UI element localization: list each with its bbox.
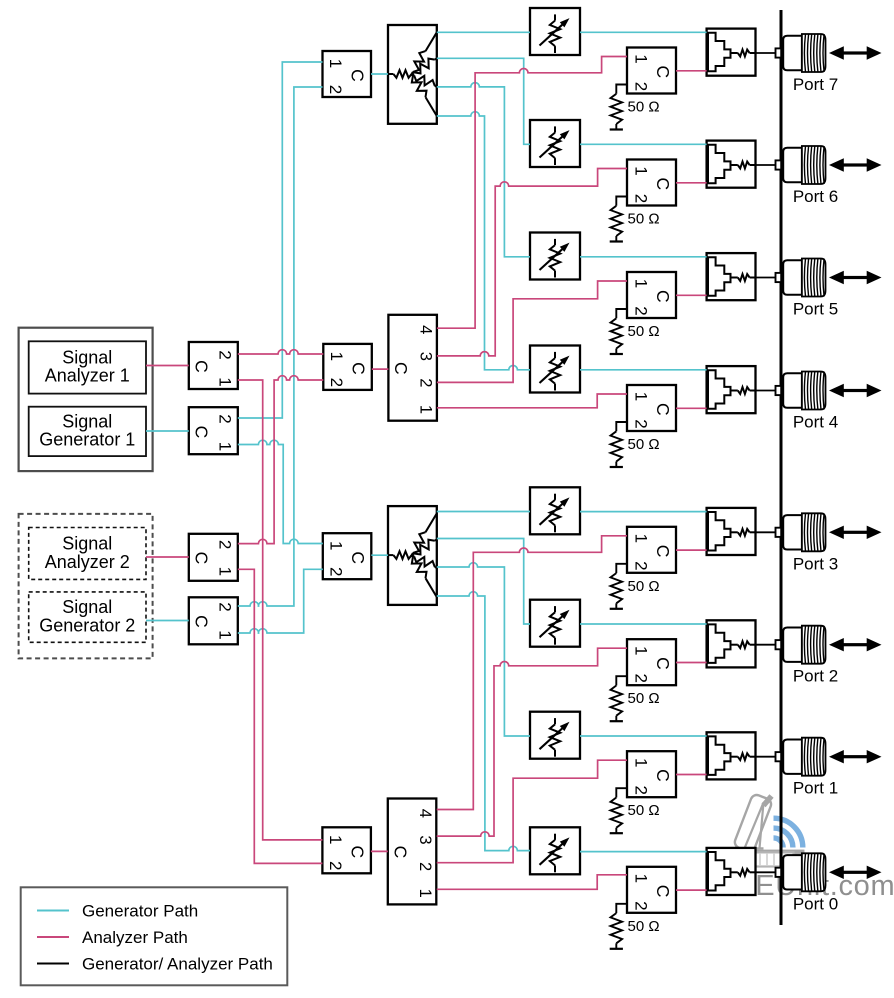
panel feedthrough 7 — [776, 48, 782, 57]
svg-text:Port 5: Port 5 — [793, 300, 838, 319]
svg-text:C: C — [653, 657, 673, 670]
svg-text:1: 1 — [326, 59, 345, 68]
panel feedthrough 4 — [776, 386, 782, 395]
svg-text:1: 1 — [215, 630, 234, 639]
wire attenuator to coupler 4 — [580, 369, 707, 371]
wire coupler 6 to panel — [756, 164, 777, 166]
wire attenuator to coupler 0 — [580, 851, 707, 853]
wire U1.3 to SW6 — [437, 169, 627, 356]
svg-text:2: 2 — [215, 414, 234, 423]
wire T2.C to U1 — [372, 368, 389, 370]
svg-text:1: 1 — [327, 352, 346, 361]
svg-text:Port 3: Port 3 — [793, 554, 838, 573]
wire coupler 0 to panel — [756, 871, 777, 873]
wire switch C to coupler 6 — [676, 182, 707, 184]
switch SW-G2 — [189, 597, 238, 644]
wire SG1 to SW-G1 — [146, 430, 189, 432]
wire switch C to coupler 1 — [676, 774, 707, 776]
label Port 0 — [793, 894, 838, 913]
svg-text:Analyzer 1: Analyzer 1 — [45, 366, 130, 386]
svg-text:1: 1 — [632, 534, 651, 543]
svg-text:Signal: Signal — [62, 534, 112, 554]
svg-text:1: 1 — [416, 889, 434, 898]
wire U2.2 to SW1 — [437, 760, 627, 863]
wire SW-G1.1 to T3.1 — [238, 440, 323, 543]
wire T4.C to U2 — [371, 850, 388, 852]
svg-text:1: 1 — [632, 874, 651, 883]
wire S2.4 to AT0 — [437, 592, 530, 851]
svg-text:Analyzer 2: Analyzer 2 — [45, 552, 130, 572]
svg-text:3: 3 — [416, 352, 434, 361]
label 50ohm R3 — [628, 578, 660, 595]
wire S1.2 to AT6 — [437, 58, 530, 144]
svg-text:50 Ω: 50 Ω — [628, 99, 660, 116]
svg-text:C: C — [653, 403, 673, 416]
label Port 4 — [793, 413, 838, 432]
label Port 1 — [793, 779, 838, 798]
svg-text:50 Ω: 50 Ω — [628, 918, 660, 935]
legend generator analyzer path — [37, 955, 273, 974]
switch SW4 — [627, 385, 676, 431]
signal analyzer 2 — [29, 528, 146, 580]
svg-text:C: C — [191, 426, 211, 439]
svg-text:3: 3 — [416, 835, 434, 844]
svg-text:Port 1: Port 1 — [793, 779, 838, 798]
legend generator path — [37, 902, 198, 921]
svg-text:2: 2 — [327, 378, 346, 387]
svg-text:C: C — [653, 65, 673, 78]
bidirectional arrow Port 7 — [829, 46, 882, 59]
svg-text:50 Ω: 50 Ω — [628, 578, 660, 595]
switch SW-A1 — [189, 342, 238, 389]
svg-text:1: 1 — [632, 646, 651, 655]
wire switch C to coupler 2 — [676, 662, 707, 664]
50 ohm termination R0 — [610, 904, 627, 949]
label Port 6 — [793, 187, 838, 206]
port connector Port 3 — [783, 513, 825, 551]
splitter S1 — [388, 25, 437, 124]
wire SW-A2.1 to T4.2 — [238, 569, 323, 863]
bidirectional arrow Port 3 — [829, 526, 882, 539]
switch T3 — [323, 533, 372, 579]
svg-text:Port 6: Port 6 — [793, 187, 838, 206]
panel feedthrough 2 — [776, 640, 782, 649]
svg-text:Generator 2: Generator 2 — [39, 615, 135, 635]
wire SW-A1.1 to T4.1 — [238, 380, 323, 840]
wire SW-A2.2 to T2.2 — [238, 376, 323, 544]
wire S1.4 to AT4 — [437, 112, 530, 370]
wire U1.1 to SW4 — [437, 394, 627, 408]
switch SW-A2 — [189, 534, 238, 581]
label 50ohm R7 — [628, 99, 660, 116]
variable attenuator AT0 — [530, 827, 580, 874]
svg-text:Signal: Signal — [62, 411, 112, 431]
wire SW-G1.2 to T1.1 — [238, 62, 323, 418]
50 ohm termination R3 — [610, 564, 627, 609]
label 50ohm R0 — [628, 918, 660, 935]
svg-text:Analyzer Path: Analyzer Path — [82, 928, 188, 947]
svg-text:C: C — [390, 846, 410, 859]
svg-text:1: 1 — [326, 835, 345, 844]
svg-text:C: C — [348, 551, 368, 564]
wire attenuator to coupler 7 — [580, 31, 707, 33]
label 50ohm R4 — [628, 436, 660, 453]
wire switch C to coupler 5 — [676, 294, 707, 296]
svg-text:C: C — [191, 360, 211, 373]
svg-text:Signal: Signal — [62, 347, 112, 367]
svg-text:50 Ω: 50 Ω — [628, 436, 660, 453]
svg-text:C: C — [391, 362, 411, 375]
label Port 5 — [793, 300, 838, 319]
switch SW1 — [627, 751, 676, 797]
svg-text:2: 2 — [632, 785, 651, 794]
SP4T switch U2 — [388, 799, 437, 905]
wire SW-G2.2 to T1.2 — [238, 87, 323, 606]
svg-text:1: 1 — [632, 758, 651, 767]
splitter S2 — [388, 506, 437, 605]
svg-text:2: 2 — [632, 901, 651, 910]
legend frame — [21, 887, 288, 985]
svg-text:C: C — [348, 362, 368, 375]
50 ohm termination R7 — [610, 85, 627, 130]
legend analyzer path — [37, 928, 188, 947]
panel feedthrough 1 — [776, 752, 782, 761]
bidirectional arrow Port 2 — [829, 638, 882, 651]
label Port 2 — [793, 667, 838, 686]
bidirectional arrow Port 1 — [829, 750, 882, 763]
wire coupler 5 to panel — [756, 277, 777, 279]
svg-text:1: 1 — [632, 54, 651, 63]
signal analyzer 1 — [29, 341, 146, 393]
svg-text:1: 1 — [215, 567, 234, 576]
svg-text:2: 2 — [215, 602, 234, 611]
svg-text:Generator Path: Generator Path — [82, 902, 198, 921]
svg-text:2: 2 — [326, 85, 345, 94]
switch SW6 — [627, 160, 676, 206]
panel feedthrough 6 — [776, 160, 782, 169]
label Port 7 — [793, 75, 838, 94]
label Port 3 — [793, 554, 838, 573]
port connector Port 2 — [783, 626, 825, 664]
bidirectional arrow Port 4 — [829, 384, 882, 397]
wire U1.2 to SW5 — [437, 281, 627, 382]
wire coupler 3 to panel — [756, 531, 777, 533]
svg-text:2: 2 — [326, 861, 345, 870]
svg-text:Port 4: Port 4 — [793, 413, 838, 432]
wire T3.C to S2 — [371, 554, 388, 556]
SP4T switch U1 — [388, 315, 437, 421]
port connector Port 6 — [783, 146, 825, 184]
svg-text:2: 2 — [416, 862, 434, 871]
svg-text:C: C — [191, 552, 211, 565]
50 ohm termination R5 — [610, 309, 627, 354]
signal generator 2 — [29, 592, 146, 642]
coupler CP7 — [707, 29, 756, 76]
wire attenuator to coupler 1 — [580, 735, 707, 737]
port connector Port 0 — [783, 853, 825, 891]
port connector Port 7 — [783, 34, 825, 72]
svg-text:2: 2 — [215, 540, 234, 549]
svg-text:Port 7: Port 7 — [793, 75, 838, 94]
svg-text:Port 2: Port 2 — [793, 667, 838, 686]
svg-text:4: 4 — [416, 325, 434, 334]
wire attenuator to coupler 2 — [580, 623, 707, 625]
signal generator 1 — [29, 407, 146, 456]
svg-text:50 Ω: 50 Ω — [628, 690, 660, 707]
panel feedthrough 5 — [776, 273, 782, 282]
wire switch C to coupler 4 — [676, 407, 707, 409]
wire SA1 to SW-A1 — [146, 365, 189, 367]
svg-text:4: 4 — [416, 809, 434, 818]
wire coupler 4 to panel — [756, 390, 777, 392]
svg-text:C: C — [653, 177, 673, 190]
switch SW3 — [627, 527, 676, 573]
wire SW-G2.1 to T3.2 — [238, 569, 323, 633]
svg-text:2: 2 — [632, 561, 651, 570]
50 ohm termination R6 — [610, 197, 627, 242]
switch SW-G1 — [189, 407, 238, 454]
svg-text:50 Ω: 50 Ω — [628, 211, 660, 228]
svg-text:2: 2 — [632, 306, 651, 315]
wire U2.3 to SW2 — [437, 648, 627, 836]
50 ohm termination R4 — [610, 422, 627, 467]
wire attenuator to coupler 6 — [580, 143, 707, 145]
variable attenuator AT5 — [530, 233, 580, 280]
svg-text:2: 2 — [632, 673, 651, 682]
port connector Port 4 — [783, 372, 825, 410]
svg-text:C: C — [653, 545, 673, 558]
wire coupler 7 to panel — [756, 52, 777, 54]
switch SW0 — [627, 867, 676, 913]
wire SG2 to SW-G2 — [146, 620, 189, 622]
variable attenuator AT2 — [530, 600, 580, 647]
switch SW5 — [627, 272, 676, 318]
switch T2 — [323, 344, 372, 390]
coupler CP5 — [707, 253, 756, 300]
wire coupler 2 to panel — [756, 644, 777, 646]
coupler CP6 — [707, 141, 756, 188]
bidirectional arrow Port 6 — [829, 158, 882, 171]
coupler CP0 — [707, 848, 756, 895]
svg-text:2: 2 — [632, 194, 651, 203]
label 50ohm R5 — [628, 323, 660, 340]
svg-text:1: 1 — [215, 442, 234, 451]
svg-text:1: 1 — [326, 541, 345, 550]
wire attenuator to coupler 5 — [580, 256, 707, 258]
variable attenuator AT4 — [530, 346, 580, 393]
panel bulkhead line — [780, 10, 783, 925]
label 50ohm R2 — [628, 690, 660, 707]
svg-text:C: C — [348, 69, 368, 82]
svg-text:50 Ω: 50 Ω — [628, 802, 660, 819]
coupler CP1 — [707, 732, 756, 779]
wire U2.1 to SW0 — [437, 875, 627, 890]
label 50ohm R1 — [628, 802, 660, 819]
watermark ATEUnit.com — [719, 793, 894, 902]
label 50ohm R6 — [628, 211, 660, 228]
port connector Port 1 — [783, 738, 825, 776]
wire switch C to coupler 0 — [676, 889, 707, 891]
wire attenuator to coupler 3 — [580, 511, 707, 513]
wire S1.1 to AT7 — [437, 31, 530, 33]
svg-text:Signal: Signal — [62, 597, 112, 617]
signal source group 1 frame — [19, 328, 153, 471]
50 ohm termination R2 — [610, 676, 627, 721]
svg-text:50 Ω: 50 Ω — [628, 323, 660, 340]
variable attenuator AT6 — [530, 120, 580, 167]
variable attenuator AT1 — [530, 712, 580, 759]
bidirectional arrow Port 0 — [829, 866, 882, 879]
wire SW-A1.2 to T2.1 — [238, 350, 323, 354]
svg-text:C: C — [653, 290, 673, 303]
svg-text:Generator 1: Generator 1 — [39, 430, 135, 450]
panel feedthrough 3 — [776, 528, 782, 537]
svg-text:Port 0: Port 0 — [793, 894, 838, 913]
svg-text:1: 1 — [416, 405, 434, 414]
port connector Port 5 — [783, 259, 825, 297]
svg-text:Generator/ Analyzer Path: Generator/ Analyzer Path — [82, 955, 273, 974]
bidirectional arrow Port 5 — [829, 271, 882, 284]
wire S2.3 to AT1 — [437, 563, 530, 736]
svg-text:1: 1 — [215, 377, 234, 386]
wire SA2 to SW-A2 — [146, 556, 189, 558]
svg-text:C: C — [653, 885, 673, 898]
svg-text:2: 2 — [326, 567, 345, 576]
wire T1.C to S1 — [371, 73, 388, 75]
coupler CP4 — [707, 366, 756, 413]
50 ohm termination R1 — [610, 788, 627, 833]
svg-text:1: 1 — [632, 279, 651, 288]
variable attenuator AT3 — [530, 487, 580, 534]
switch T1 — [323, 51, 372, 97]
wire S2.1 to AT3 — [437, 511, 530, 513]
wire U1.4 to SW7 — [437, 57, 627, 329]
wire coupler 1 to panel — [756, 756, 777, 758]
wire U2.4 to SW3 — [437, 536, 627, 810]
svg-text:C: C — [347, 845, 367, 858]
svg-text:C: C — [653, 769, 673, 782]
svg-text:1: 1 — [632, 392, 651, 401]
switch T4 — [322, 827, 371, 873]
svg-text:2: 2 — [632, 419, 651, 428]
switch SW2 — [627, 639, 676, 685]
svg-text:C: C — [191, 615, 211, 628]
coupler CP3 — [707, 508, 756, 555]
wire switch C to coupler 3 — [676, 549, 707, 551]
svg-text:1: 1 — [632, 166, 651, 175]
variable attenuator AT7 — [530, 8, 580, 55]
svg-text:2: 2 — [416, 378, 434, 387]
panel feedthrough 0 — [776, 868, 782, 877]
coupler CP2 — [707, 620, 756, 667]
signal source group 2 frame — [19, 514, 153, 659]
svg-text:2: 2 — [215, 350, 234, 359]
wire switch C to coupler 7 — [676, 70, 707, 72]
wire S2.2 to AT2 — [437, 539, 530, 625]
wire S1.3 to AT5 — [437, 83, 530, 257]
svg-text:2: 2 — [632, 82, 651, 91]
switch SW7 — [627, 48, 676, 94]
